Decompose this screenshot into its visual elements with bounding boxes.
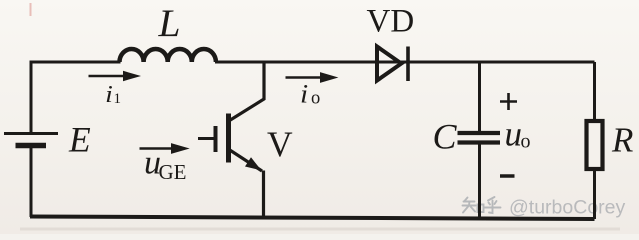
arrow io shaft — [286, 76, 322, 79]
diode VD triangle — [377, 47, 401, 81]
diode VD cathode bar — [406, 47, 410, 82]
arrow uGE head — [171, 143, 190, 154]
plus sign — [500, 93, 517, 110]
svg-text:C: C — [433, 117, 458, 157]
svg-text:R: R — [611, 121, 633, 160]
watermark zhihu character zhi — [463, 198, 484, 213]
wire left vertical lower — [30, 147, 33, 217]
wire emitter vertical — [262, 171, 265, 219]
svg-text:o: o — [311, 89, 320, 109]
capacitor C bottom plate — [458, 140, 501, 144]
transistor V gate lead — [198, 137, 214, 140]
svg-text:u: u — [505, 115, 523, 154]
svg-text:VD: VD — [367, 4, 415, 40]
inductor L coil — [120, 49, 216, 62]
wire capacitor upper — [478, 62, 481, 131]
battery E long plate — [4, 132, 58, 135]
page shadow under bottom wire — [20, 228, 620, 231]
arrow i1 shaft — [89, 75, 127, 78]
battery E short plate — [16, 143, 47, 149]
wire bottom horizontal — [30, 217, 595, 220]
svg-text:V: V — [267, 124, 293, 164]
wire top right segment — [215, 61, 595, 64]
wire right vertical upper — [593, 62, 596, 121]
arrow i1 head — [123, 71, 141, 81]
svg-text:@turboCorey: @turboCorey — [509, 197, 626, 219]
transistor V emitter arrowhead — [245, 157, 262, 170]
svg-text:o: o — [521, 131, 531, 153]
red ink tick top left — [30, 3, 32, 16]
svg-text:E: E — [68, 120, 91, 160]
svg-text:i: i — [300, 80, 308, 109]
arrow io head — [320, 72, 338, 83]
transistor V gate bar — [214, 126, 218, 152]
capacitor C top plate — [458, 131, 501, 135]
minus sign — [500, 174, 515, 178]
transistor V collector lead — [230, 62, 265, 121]
svg-text:1: 1 — [114, 91, 122, 107]
transistor V emitter diagonal — [229, 150, 262, 172]
watermark zhihu character hu — [484, 197, 501, 213]
arrow uGE shaft — [140, 147, 173, 150]
wire capacitor lower — [478, 145, 481, 219]
wire right vertical lower — [593, 169, 596, 219]
svg-text:GE: GE — [159, 160, 187, 184]
transistor V main bar — [226, 114, 231, 163]
wire left vertical upper — [30, 61, 33, 133]
svg-text:i: i — [105, 80, 113, 107]
svg-text:L: L — [158, 1, 181, 45]
wire top left segment — [30, 61, 121, 64]
resistor R body — [587, 121, 603, 169]
